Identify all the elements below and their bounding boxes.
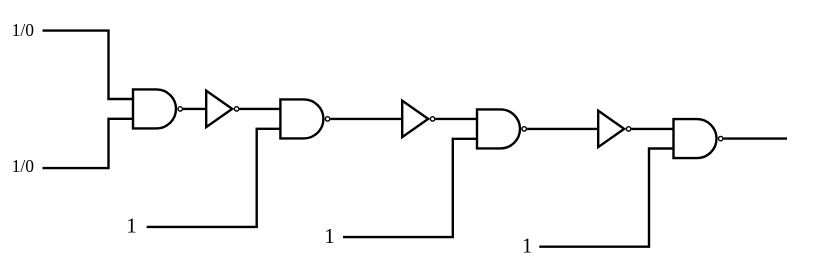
svg-text:1: 1 xyxy=(324,224,335,248)
svg-text:1: 1 xyxy=(522,233,533,257)
svg-text:1/0: 1/0 xyxy=(12,20,35,40)
svg-text:1/0: 1/0 xyxy=(12,156,35,176)
svg-text:1: 1 xyxy=(126,214,137,238)
